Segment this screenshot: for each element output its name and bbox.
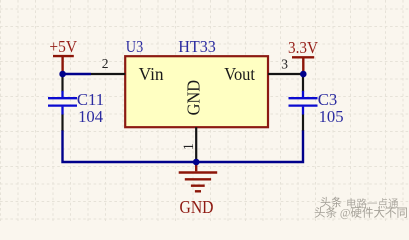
svg-text:+5V: +5V <box>49 37 77 56</box>
pin 3 (right) <box>268 73 301 75</box>
svg-text:105: 105 <box>319 107 344 126</box>
svg-text:Vin: Vin <box>139 64 164 84</box>
wire: +5V junction to pin 2 <box>63 73 91 75</box>
watermark <box>314 195 408 220</box>
junction 3.3V node <box>300 71 307 78</box>
junction GND node <box>193 159 200 166</box>
pin 1 (bottom) <box>195 127 197 159</box>
svg-text:3: 3 <box>281 57 288 72</box>
svg-text:头条 @硬件大不同: 头条 @硬件大不同 <box>314 206 408 220</box>
op: part U3 body <box>125 56 268 127</box>
capacitor C11 <box>48 75 104 131</box>
svg-text:1: 1 <box>181 143 197 150</box>
svg-text:104: 104 <box>78 107 103 126</box>
wire: ground bus (C11 bottom to C3 bottom) <box>63 130 304 162</box>
svg-text:HT33: HT33 <box>178 37 216 56</box>
svg-text:Vout: Vout <box>224 64 255 84</box>
junction +5V node <box>59 71 66 78</box>
svg-text:U3: U3 <box>126 37 143 56</box>
svg-text:3.3V: 3.3V <box>288 38 318 57</box>
svg-text:GND: GND <box>180 197 214 217</box>
power port 3.3V <box>292 57 314 71</box>
pin 2 (left) <box>91 73 125 75</box>
capacitor C3 <box>289 75 344 131</box>
power port +5V <box>53 56 74 71</box>
svg-text:GND: GND <box>183 80 203 116</box>
ground symbol GND <box>179 163 218 192</box>
svg-text:2: 2 <box>102 56 109 71</box>
